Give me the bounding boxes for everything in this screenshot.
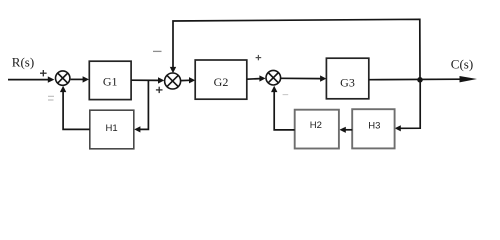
sign + at summer S1 (40, 70, 47, 76)
block H3 (352, 109, 394, 148)
svg-text:C(s): C(s) (451, 56, 473, 71)
block H2 (295, 110, 339, 149)
wire summer S2 to block G2 (181, 77, 196, 83)
block G2 (195, 60, 247, 99)
wire H1 to summer S1 (feedback) (60, 86, 90, 130)
summing junction S3 (266, 70, 281, 85)
wire H3 to H2 (339, 127, 352, 133)
wire summer S3 to block G3 (281, 75, 327, 81)
sign − (gray) at summer S2 (153, 50, 162, 52)
svg-text:R(s): R(s) (12, 55, 34, 70)
wire H2 to summer S3 (feedback) (271, 86, 295, 130)
svg-text:G1: G1 (103, 75, 118, 89)
wire summer S1 to block G1 (71, 76, 89, 82)
wire G3 to C(s) output (369, 76, 477, 82)
block G1 (89, 61, 131, 99)
svg-text:H3: H3 (368, 120, 380, 131)
sign − (faint gray) at summer S3 (283, 94, 289, 96)
sign + at summer S2 (156, 87, 163, 93)
svg-text:G3: G3 (340, 76, 355, 90)
node takeoff dot after G3 (417, 77, 423, 83)
wire input R(s) to summer S1 (8, 76, 54, 82)
sign + at summer S3 (256, 55, 262, 60)
block G3 (326, 58, 368, 99)
svg-text:H1: H1 (106, 123, 118, 134)
svg-text:H2: H2 (310, 120, 322, 131)
wire outer feedback from node down-line into summer S2 (top loop) (170, 19, 420, 80)
wire takeoff after G1 down to H1 (134, 80, 148, 132)
sign − (gray double dash) at summer S1 (48, 96, 54, 100)
wire G1 to summer S2 (131, 77, 164, 83)
wire node down to H3 (395, 80, 421, 132)
block H1 (90, 110, 134, 149)
summing junction S2 (165, 73, 181, 89)
summing junction S1 (56, 71, 70, 85)
svg-text:G2: G2 (214, 75, 229, 89)
wire G2 to summer S3 (247, 75, 266, 81)
